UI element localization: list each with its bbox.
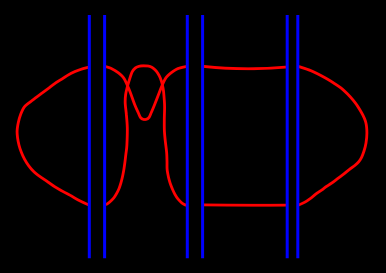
red curve: left lobe [17, 67, 89, 205]
blue annulus 2 left line [186, 15, 189, 258]
blue annulus 2 right line [201, 15, 204, 258]
red curve: top segment pair2 to pair3 [203, 66, 288, 68]
blue annulus 1 right line [103, 15, 106, 258]
red curve: bottom segment pair2 to pair3 [203, 203, 288, 206]
red curve: middle U strand (pair1 top to pair2 top) [105, 66, 188, 119]
blue annulus 3 left line [286, 15, 289, 258]
blue annulus 1 left line [88, 15, 91, 258]
red curve: right lobe [298, 66, 367, 205]
blue annulus 3 right line [296, 15, 299, 258]
red curve: middle loop strand (pair1 bottom over balloon to pair2 bottom) [105, 66, 188, 206]
